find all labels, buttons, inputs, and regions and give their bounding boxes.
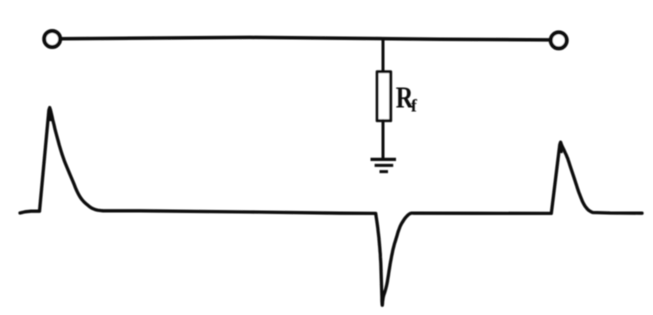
resistor Rf (body rectangle) <box>377 72 391 121</box>
wire: resistor Rf bottom lead down to ground <box>382 121 385 160</box>
terminal: right open-circle output <box>551 32 567 48</box>
wire: top horizontal conductor between input and output terminals <box>60 37 549 40</box>
label Rf: resistor reference designator "R" with subscript "f" <box>396 81 418 116</box>
waveform: signal trace (left positive pulse, centre negative pulse below Rf, right positive pulse) <box>20 108 642 306</box>
svg-text:f: f <box>411 96 418 116</box>
wire: vertical stem from top conductor down to resistor Rf <box>382 40 385 72</box>
ground (three-bar earth symbol) <box>371 159 397 171</box>
terminal: left open-circle input <box>44 31 60 47</box>
